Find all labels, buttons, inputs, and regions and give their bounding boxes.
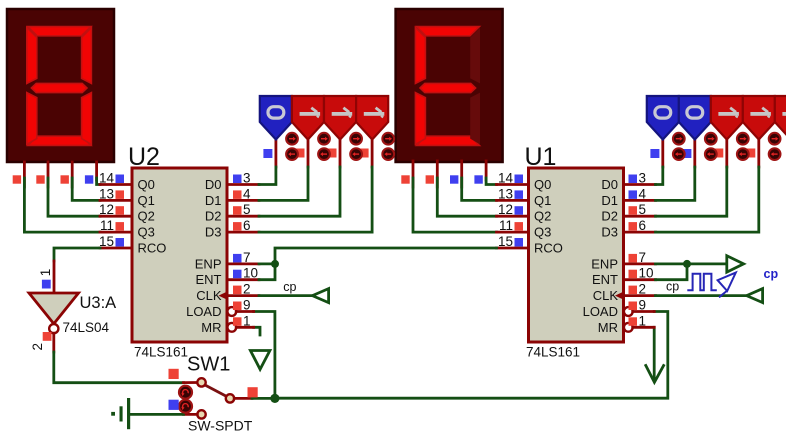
svg-text:MR: MR: [598, 320, 618, 335]
svg-text:15: 15: [498, 234, 513, 249]
svg-text:2: 2: [639, 282, 647, 297]
svg-text:9: 9: [639, 298, 647, 313]
svg-text:2: 2: [243, 282, 251, 297]
svg-text:4: 4: [243, 186, 251, 201]
svg-text:D0: D0: [601, 177, 618, 192]
svg-text:5: 5: [243, 202, 251, 217]
svg-text:CLK: CLK: [593, 288, 619, 303]
svg-text:RCO: RCO: [138, 241, 167, 256]
svg-text:13: 13: [498, 186, 513, 201]
svg-text:U3:A: U3:A: [80, 294, 117, 312]
svg-text:10: 10: [243, 266, 258, 281]
svg-text:D3: D3: [205, 225, 222, 240]
svg-text:14: 14: [99, 171, 115, 186]
svg-text:2: 2: [30, 343, 45, 351]
svg-text:7: 7: [639, 250, 647, 265]
svg-text:U2: U2: [128, 143, 160, 171]
svg-text:13: 13: [99, 186, 114, 201]
svg-text:LOAD: LOAD: [186, 304, 221, 319]
svg-text:ENT: ENT: [592, 272, 618, 287]
svg-text:10: 10: [639, 266, 654, 281]
svg-text:Q2: Q2: [138, 209, 155, 224]
svg-text:SW1: SW1: [187, 354, 230, 376]
svg-text:Q2: Q2: [534, 209, 551, 224]
svg-text:ENP: ENP: [195, 256, 222, 271]
svg-text:Q3: Q3: [138, 225, 155, 240]
svg-text:U1: U1: [525, 143, 557, 171]
svg-text:7: 7: [243, 250, 251, 265]
svg-text:74LS04: 74LS04: [63, 320, 110, 335]
svg-text:12: 12: [99, 202, 114, 217]
svg-text:14: 14: [498, 171, 514, 186]
svg-text:D1: D1: [601, 193, 618, 208]
svg-text:MR: MR: [201, 320, 221, 335]
svg-text:Q0: Q0: [534, 177, 551, 192]
svg-text:cp: cp: [666, 280, 679, 294]
svg-text:D0: D0: [205, 177, 222, 192]
svg-text:Q0: Q0: [138, 177, 155, 192]
svg-text:74LS161: 74LS161: [526, 344, 580, 359]
svg-text:D2: D2: [205, 209, 222, 224]
svg-text:CLK: CLK: [196, 288, 222, 303]
svg-text:D2: D2: [601, 209, 618, 224]
svg-text:LOAD: LOAD: [583, 304, 618, 319]
svg-text:15: 15: [99, 234, 114, 249]
svg-text:4: 4: [639, 186, 647, 201]
svg-text:RCO: RCO: [534, 241, 563, 256]
svg-text:D3: D3: [601, 225, 618, 240]
svg-text:74LS161: 74LS161: [134, 344, 188, 359]
svg-text:Q1: Q1: [138, 193, 155, 208]
svg-text:SW-SPDT: SW-SPDT: [188, 418, 253, 432]
svg-text:6: 6: [243, 218, 251, 233]
svg-text:12: 12: [498, 202, 513, 217]
svg-text:D1: D1: [205, 193, 222, 208]
svg-text:3: 3: [243, 171, 251, 186]
svg-text:Q3: Q3: [534, 225, 551, 240]
svg-text:11: 11: [100, 218, 114, 233]
svg-text:1: 1: [38, 269, 53, 277]
svg-text:3: 3: [639, 171, 647, 186]
svg-text:Q1: Q1: [534, 193, 551, 208]
svg-text:11: 11: [499, 218, 513, 233]
svg-text:cp: cp: [764, 267, 779, 281]
svg-text:ENT: ENT: [196, 272, 222, 287]
svg-text:9: 9: [243, 298, 251, 313]
svg-text:1: 1: [243, 313, 251, 328]
svg-text:1: 1: [639, 313, 647, 328]
svg-text:6: 6: [639, 218, 647, 233]
svg-text:cp: cp: [283, 280, 296, 294]
svg-text:ENP: ENP: [591, 256, 618, 271]
svg-text:5: 5: [639, 202, 647, 217]
